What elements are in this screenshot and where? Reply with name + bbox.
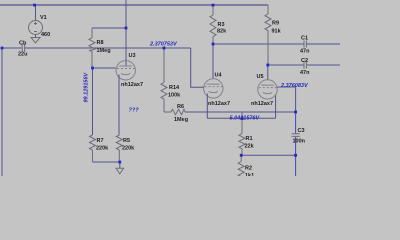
svg-text:U3: U3 xyxy=(129,53,136,59)
svg-text:1Meg: 1Meg xyxy=(97,48,111,54)
svg-text:1Meg: 1Meg xyxy=(174,117,188,123)
svg-text:22u: 22u xyxy=(18,52,27,58)
svg-text:???: ??? xyxy=(129,108,140,114)
svg-text:C2: C2 xyxy=(301,58,308,64)
svg-text:R2: R2 xyxy=(245,166,252,172)
svg-text:22k: 22k xyxy=(245,144,255,150)
resistor R2 xyxy=(238,155,244,176)
svg-text:100n: 100n xyxy=(293,139,306,145)
svg-text:2.370753V: 2.370753V xyxy=(149,42,178,48)
ground symbol xyxy=(116,168,124,174)
node R8/plate feed xyxy=(125,27,128,30)
resistor R7 xyxy=(90,135,96,162)
svg-text:99.129156V: 99.129156V xyxy=(84,72,90,103)
capacitor C1 xyxy=(304,41,306,48)
node U3 grid wire xyxy=(93,67,116,69)
wire U3 plate feed from top edge xyxy=(125,0,127,61)
node rail/R3 xyxy=(212,4,215,7)
wire C1 net (U4 plate to output) xyxy=(213,43,340,45)
node U5 grid/C3 xyxy=(294,111,297,114)
wire U5 plate lead xyxy=(267,65,269,80)
wire input bus (Cb net) xyxy=(2,47,191,49)
node R14 top xyxy=(163,47,166,50)
capacitor C2 xyxy=(304,62,306,69)
wire U5 grid feedback stub xyxy=(277,87,295,112)
resistor R1 xyxy=(239,112,245,155)
svg-text:82k: 82k xyxy=(217,29,227,35)
node C3/tail link xyxy=(294,154,297,157)
node R1/R2 tail xyxy=(240,154,243,157)
wire U4 grid input: corner from Cb net xyxy=(191,48,204,87)
resistor R8 xyxy=(89,28,95,68)
wire U4 cathode drop xyxy=(206,94,208,119)
svg-text:U4: U4 xyxy=(215,73,223,79)
triode U5 (mirrored) xyxy=(258,80,277,99)
wire tail node link xyxy=(241,154,295,156)
resistor R14 xyxy=(161,48,167,112)
svg-text:91k: 91k xyxy=(272,29,282,35)
wire cathode bus (R6 to U5 grid node) xyxy=(185,111,296,113)
wire grid node down to R7 xyxy=(92,68,94,135)
svg-text:Cb: Cb xyxy=(19,41,27,47)
wire U3 cathode to R5 xyxy=(118,75,120,136)
svg-text:100k: 100k xyxy=(168,93,181,99)
svg-text:C1: C1 xyxy=(301,36,308,42)
svg-text:R1: R1 xyxy=(246,136,253,142)
svg-text:R7: R7 xyxy=(97,138,104,144)
svg-text:R5: R5 xyxy=(123,138,130,144)
svg-text:C3: C3 xyxy=(298,128,305,134)
node rail/V1 xyxy=(33,4,36,7)
svg-text:220k: 220k xyxy=(96,146,109,152)
svg-text:nh12ax7: nh12ax7 xyxy=(251,101,273,107)
capacitor Cb xyxy=(22,44,24,52)
resistor R6 (horizontal) xyxy=(164,109,185,114)
resistor R5 xyxy=(116,135,122,162)
svg-text:R8: R8 xyxy=(97,40,104,46)
svg-text:47n: 47n xyxy=(300,70,310,76)
svg-text:V1: V1 xyxy=(40,15,47,21)
svg-text:R6: R6 xyxy=(177,104,184,110)
triode U4 xyxy=(204,79,223,98)
svg-text:1k1: 1k1 xyxy=(245,173,254,176)
svg-text:5.0421576V: 5.0421576V xyxy=(230,116,261,122)
node input left xyxy=(1,47,4,50)
node U3 grid xyxy=(91,67,94,70)
wire R8 top link xyxy=(92,27,126,29)
svg-text:R14: R14 xyxy=(169,85,180,91)
wire U5 cathode drop xyxy=(275,95,277,119)
svg-text:47n: 47n xyxy=(300,49,310,55)
wire left edge drop xyxy=(1,48,3,176)
resistor R3 xyxy=(210,5,216,44)
triode U3 xyxy=(116,61,135,80)
wire lower cathode link xyxy=(207,117,275,119)
node U4 plate/C1 xyxy=(212,43,215,46)
svg-text:2.376083V: 2.376083V xyxy=(280,83,309,89)
resistor R9 xyxy=(265,5,271,65)
svg-text:R9: R9 xyxy=(272,21,279,27)
svg-text:nh12ax7: nh12ax7 xyxy=(121,82,143,88)
wire top B+ rail xyxy=(0,4,268,6)
wire V1 top lead xyxy=(35,5,37,21)
wire V1 bottom lead xyxy=(35,35,37,38)
wire bottom jog to ground node xyxy=(93,161,120,163)
voltage source V1 xyxy=(29,21,43,35)
node U5 plate/C2 xyxy=(266,64,269,67)
node ground junction xyxy=(118,161,121,164)
wire U4 plate lead xyxy=(212,44,214,79)
ground under V1 xyxy=(31,38,40,44)
wire ground stub xyxy=(119,162,121,168)
wire C3 drop xyxy=(295,112,297,176)
svg-text:220k: 220k xyxy=(122,146,135,152)
svg-text:nh12ax7: nh12ax7 xyxy=(208,101,230,107)
svg-text:R3: R3 xyxy=(218,22,225,28)
node R1 top xyxy=(241,117,244,120)
wire C2 net (U5 plate to output) xyxy=(268,64,340,66)
svg-text:460: 460 xyxy=(41,32,50,38)
capacitor C3 xyxy=(292,134,300,137)
svg-text:U5: U5 xyxy=(257,74,264,80)
